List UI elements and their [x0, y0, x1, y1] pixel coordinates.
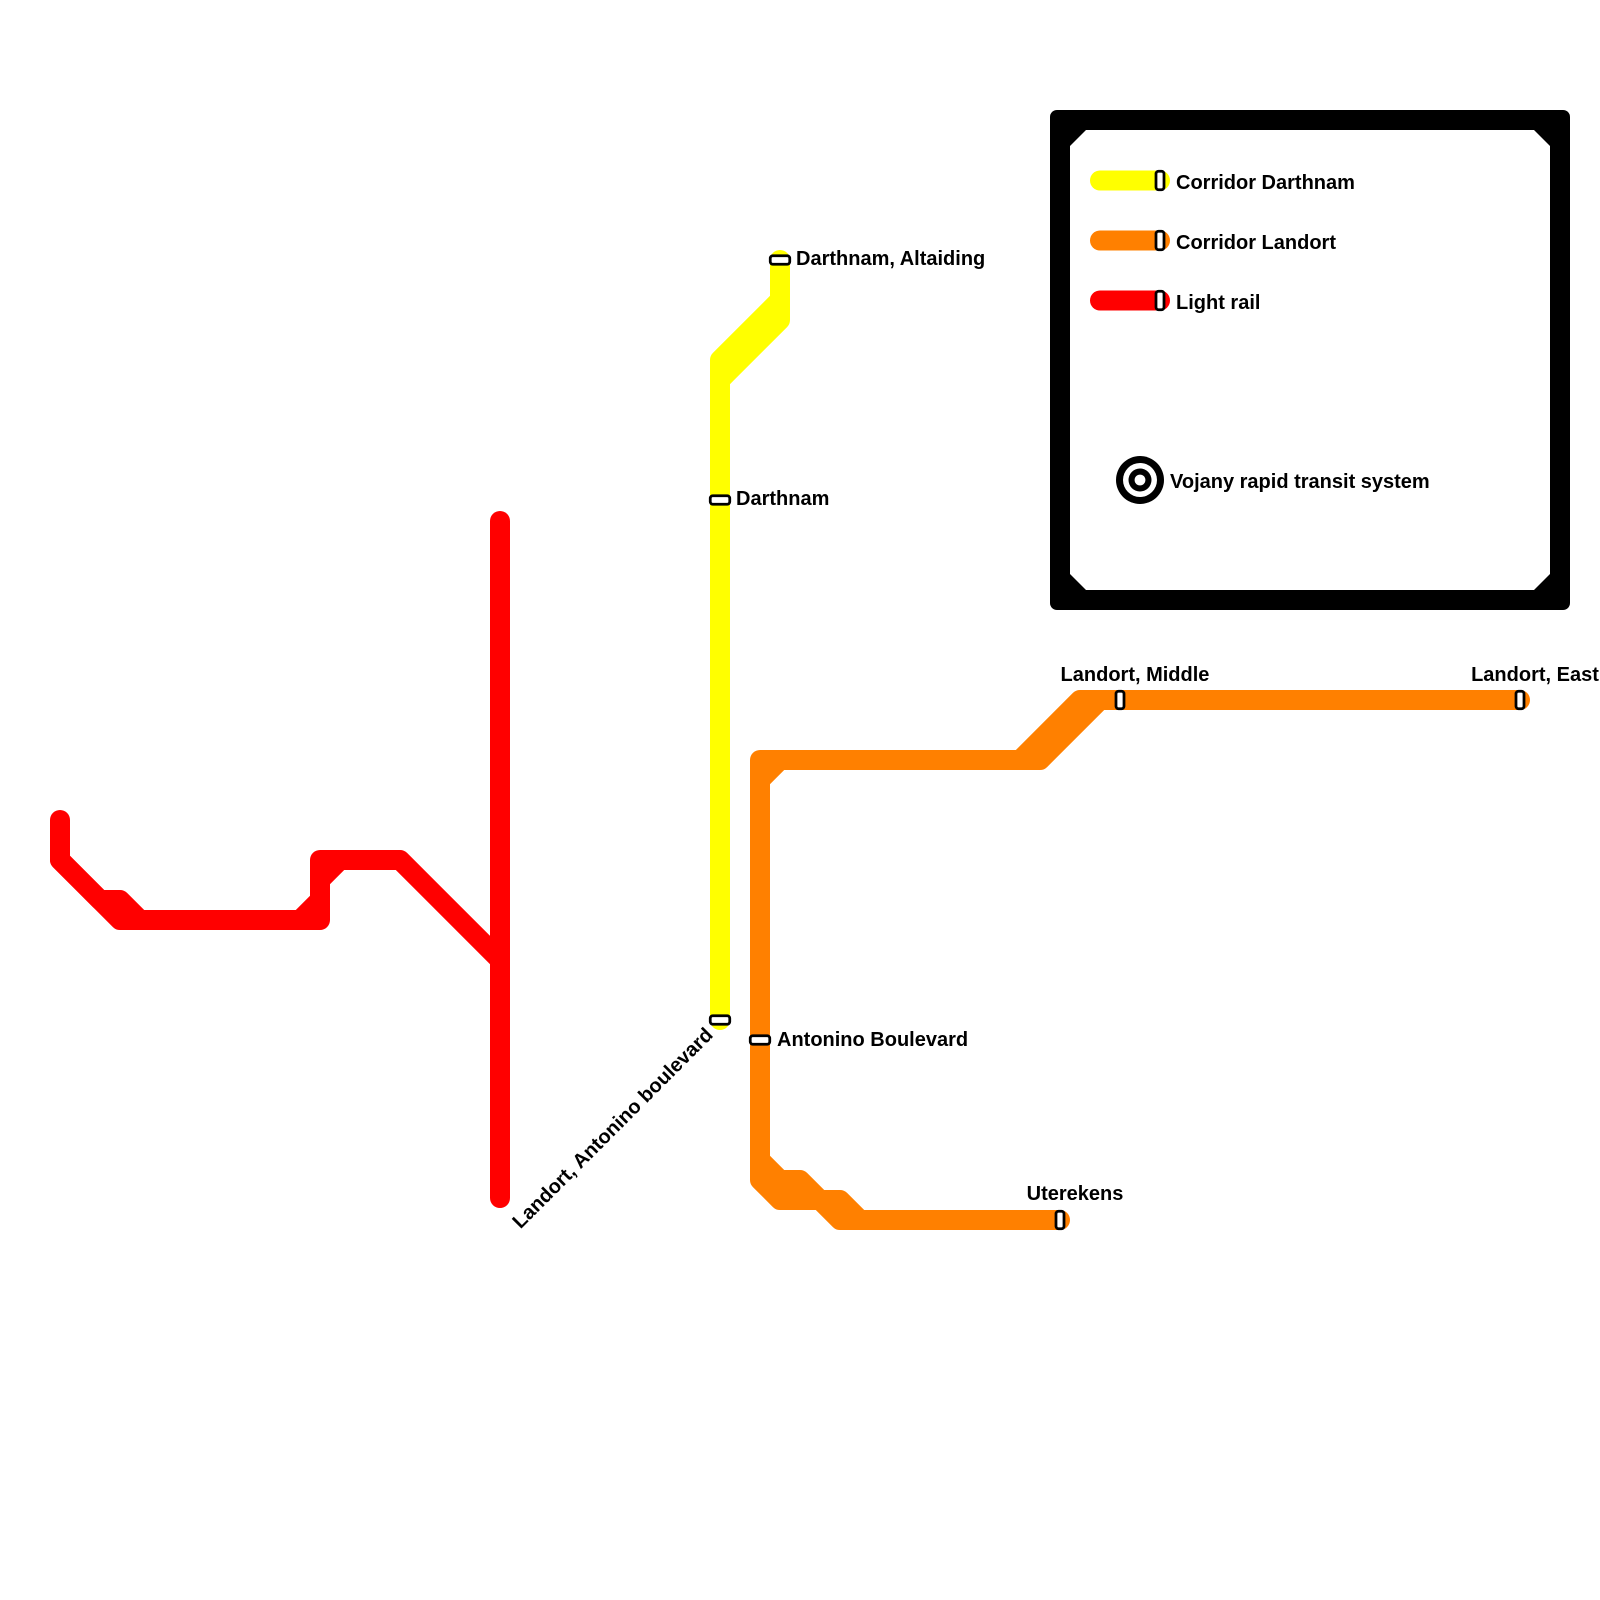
svg-text:Landort, East: Landort, East	[1471, 664, 1599, 686]
line Corridor Darthnam second track diagonal (yellow)	[720, 300, 780, 420]
line Corridor Darthnam (yellow)	[720, 260, 780, 1020]
line Light rail branch (red)	[60, 820, 500, 960]
svg-text:Landort, Middle: Landort, Middle	[1061, 664, 1210, 686]
svg-text:Uterekens: Uterekens	[1027, 1183, 1124, 1205]
legend item Light rail	[1100, 291, 1260, 314]
line Light rail branch diagonal step (red)	[300, 860, 340, 920]
line Corridor Landort second track corner cut (orange)	[760, 760, 800, 800]
station Landort, Middle	[1061, 664, 1210, 709]
svg-text:Vojany rapid transit system: Vojany rapid transit system	[1170, 471, 1430, 493]
station Landort, Antonino boulevard (yellow terminus, rotated label)	[508, 1016, 729, 1233]
svg-text:Antonino Boulevard: Antonino Boulevard	[777, 1029, 968, 1051]
station Darthnam, Altaiding	[770, 248, 985, 270]
station Darthnam	[710, 488, 829, 510]
svg-text:Darthnam, Altaiding: Darthnam, Altaiding	[796, 248, 985, 270]
legend logo bullseye	[1116, 456, 1164, 504]
station Antonino Boulevard	[750, 1029, 968, 1051]
line Corridor Landort second track diagonal (orange)	[1000, 700, 1140, 760]
legend item Corridor Darthnam	[1100, 171, 1355, 194]
station Landort, East	[1471, 664, 1599, 709]
line Light rail vertical (red)	[490, 521, 510, 1198]
svg-text:Corridor Landort: Corridor Landort	[1176, 232, 1336, 254]
svg-text:Corridor Darthnam: Corridor Darthnam	[1176, 172, 1355, 194]
line Light rail second track diagonal (red)	[60, 860, 200, 920]
legend box frame	[1050, 110, 1570, 610]
svg-text:Darthnam: Darthnam	[736, 488, 829, 510]
legend item Corridor Landort	[1100, 231, 1336, 254]
line Corridor Landort (orange)	[760, 700, 1520, 1220]
line Corridor Landort second track jog (orange)	[760, 1160, 900, 1220]
station Uterekens	[1027, 1183, 1124, 1229]
svg-text:Light rail: Light rail	[1176, 292, 1260, 314]
